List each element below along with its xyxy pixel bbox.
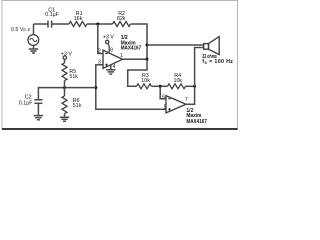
- resistor R3: [137, 84, 152, 89]
- resistor R1: [69, 22, 87, 27]
- node A junction R1/R2: [96, 23, 99, 26]
- ground at pin 4: [106, 70, 115, 74]
- wire bias rail: [38, 88, 95, 100]
- svg-text:10k: 10k: [174, 78, 183, 84]
- wire R4 to speaker column: [186, 85, 195, 87]
- node R5/R6 junction: [63, 86, 66, 89]
- +3V terminal circle U1a: [106, 40, 109, 43]
- svg-text:51k: 51k: [69, 74, 78, 80]
- svg-text:0.1µF: 0.1µF: [45, 12, 59, 18]
- svg-text:fS = 100 Hz: fS = 100 Hz: [202, 59, 233, 65]
- svg-text:1: 1: [120, 53, 123, 59]
- source V1 0.5 Vp-p: [28, 35, 39, 46]
- node feedback junction upper: [146, 44, 149, 47]
- svg-text:MAX4167: MAX4167: [186, 119, 207, 125]
- resistor R4: [168, 84, 186, 89]
- ground under C2: [34, 116, 43, 120]
- resistor R2: [113, 22, 131, 27]
- node R4/output junction: [193, 85, 196, 88]
- svg-text:7: 7: [185, 97, 188, 103]
- wire R1 to R2: [87, 23, 113, 25]
- svg-text:MAX4167: MAX4167: [121, 46, 142, 52]
- wire top rail left: [34, 23, 49, 25]
- svg-text:+3 V: +3 V: [61, 52, 73, 58]
- op-amp U1b plus: [168, 108, 170, 110]
- svg-text:2: 2: [98, 48, 101, 54]
- op-amp U1a minus: [105, 53, 107, 55]
- wire source to top rail: [33, 24, 35, 35]
- wire output jog to R3: [128, 59, 147, 86]
- svg-text:6: 6: [162, 94, 165, 100]
- op-amp U1a plus: [105, 64, 107, 66]
- wire R3R4 junction down to pin 6: [160, 86, 166, 99]
- wire C2 to ground: [37, 103, 39, 115]
- node R3/R4 junction: [159, 85, 162, 88]
- svg-text:0.5 VP-P: 0.5 VP-P: [11, 27, 31, 33]
- speaker: [204, 37, 220, 55]
- wire R2 to feedback corner: [131, 24, 148, 59]
- svg-text:8: 8: [110, 47, 113, 53]
- wire to speaker top: [147, 44, 204, 46]
- capacitor C2: [34, 100, 42, 104]
- +3V terminal circle R5: [63, 56, 66, 59]
- node output junction: [146, 58, 149, 61]
- svg-text:4: 4: [113, 64, 116, 70]
- svg-text:16k: 16k: [74, 16, 83, 22]
- ground under R6: [60, 117, 69, 121]
- wire U1a output: [123, 58, 148, 60]
- resistor R6: [62, 88, 67, 118]
- pin 4 stub: [110, 65, 112, 70]
- svg-text:0.1µF: 0.1µF: [19, 100, 33, 106]
- wire U1b output to speaker bottom: [186, 48, 204, 105]
- op-amp U1b minus: [168, 98, 170, 100]
- node bias junction pin3/pin5: [94, 86, 97, 89]
- op-amp U1a triangle: [103, 50, 123, 68]
- pin 8 stub: [108, 44, 109, 53]
- wire R3 to R4: [152, 85, 168, 87]
- op-amp U1b triangle: [166, 96, 186, 113]
- svg-text:82k: 82k: [117, 16, 126, 22]
- wire pin 5 to bias rail: [96, 65, 166, 110]
- wire C1 to R1: [52, 23, 69, 25]
- ground under source: [29, 46, 38, 54]
- svg-text:10k: 10k: [141, 78, 150, 84]
- capacitor C1: [48, 21, 52, 28]
- border frame: [2, 1, 238, 131]
- svg-text:51k: 51k: [73, 103, 82, 109]
- svg-text:+3 V: +3 V: [103, 35, 115, 41]
- resistor R5: [62, 59, 67, 87]
- wire node A down to pin 2: [98, 24, 103, 54]
